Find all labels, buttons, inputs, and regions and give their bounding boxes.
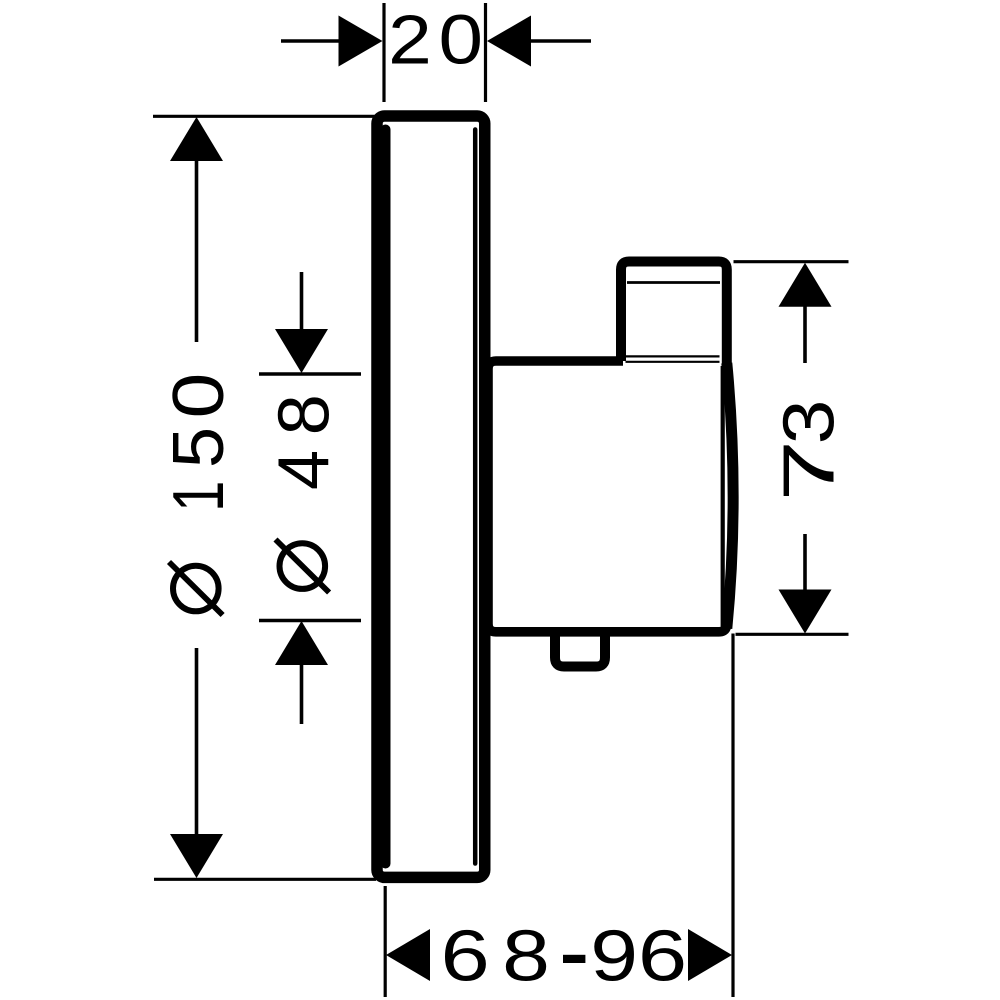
- svg-text:2: 2: [388, 1, 432, 79]
- svg-text:9: 9: [590, 917, 638, 997]
- svg-text:3: 3: [770, 400, 850, 445]
- svg-text:4: 4: [265, 450, 345, 490]
- svg-text:5: 5: [159, 427, 239, 468]
- svg-text:0: 0: [439, 1, 484, 79]
- svg-text:8: 8: [265, 394, 345, 435]
- svg-text:0: 0: [159, 373, 239, 419]
- svg-text:1: 1: [159, 481, 239, 512]
- svg-text:8: 8: [502, 917, 550, 997]
- svg-text:7: 7: [770, 440, 850, 502]
- svg-text:6: 6: [441, 917, 490, 997]
- svg-text:6: 6: [638, 917, 687, 997]
